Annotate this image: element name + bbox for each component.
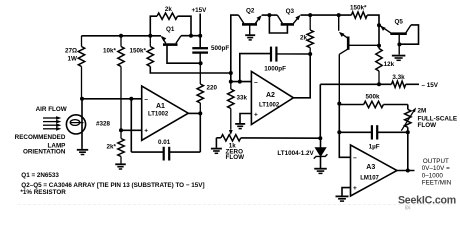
resistor 500k bbox=[339, 104, 363, 106]
air flow arrows bbox=[43, 117, 58, 119]
node A3 output bbox=[406, 169, 410, 173]
ground LT1004 bbox=[314, 168, 327, 170]
svg-text:SeekIC.com: SeekIC.com bbox=[398, 194, 456, 206]
wire Q3 base loop bbox=[269, 15, 287, 33]
faint scan line bbox=[18, 204, 452, 206]
wire lamp node to A1 minus bbox=[82, 98, 142, 100]
svg-text:3.3k: 3.3k bbox=[392, 74, 405, 81]
wire A2 minus input bbox=[231, 81, 252, 83]
ground 1k pot bbox=[211, 148, 222, 150]
ground A2 plus bbox=[235, 123, 245, 125]
node A1 minus / 0.01 feedback bbox=[129, 97, 133, 101]
node 150k left / Q4 emitter bbox=[337, 13, 341, 17]
svg-text:2k: 2k bbox=[165, 6, 173, 13]
transistor Q3 (diode connected) bbox=[281, 23, 294, 26]
svg-text:LT1004-1.2V: LT1004-1.2V bbox=[277, 150, 314, 157]
node 10k / 2k* / A1 plus bbox=[119, 128, 123, 132]
node 1uF right / 2M bottom bbox=[406, 130, 410, 134]
svg-text:−: − bbox=[353, 155, 357, 162]
wire +15V down bbox=[199, 14, 201, 48]
resistor 220 bbox=[199, 63, 201, 84]
svg-text:AIR FLOW: AIR FLOW bbox=[36, 106, 67, 113]
ground A3 plus bbox=[336, 195, 349, 197]
node 2k bottom / 1000pF / A2 out bbox=[308, 52, 312, 56]
wire Q5 collector loop bbox=[400, 25, 419, 44]
node A3 summing / 500k left bbox=[337, 102, 341, 106]
node 1000pF left bbox=[238, 80, 242, 84]
pot 1k ZERO FLOW bbox=[221, 135, 241, 141]
svg-text:33k: 33k bbox=[237, 95, 248, 102]
node Q3 base tie bbox=[267, 13, 271, 17]
svg-text:10k*: 10k* bbox=[103, 48, 117, 55]
svg-text:+: + bbox=[144, 127, 148, 134]
svg-text:A1: A1 bbox=[156, 103, 165, 110]
resistor 27 ohm 1W bbox=[81, 36, 83, 47]
svg-text:0V–10V =: 0V–10V = bbox=[422, 165, 450, 172]
node 12k / 3.3k bbox=[377, 82, 381, 86]
resistor 2k* bbox=[120, 130, 122, 138]
ground Q2 base bbox=[245, 34, 255, 36]
svg-text:2M: 2M bbox=[418, 108, 427, 115]
svg-text:500pF: 500pF bbox=[211, 45, 229, 52]
wire Q1 collector to +15V node bbox=[181, 35, 200, 37]
svg-text:27Ω: 27Ω bbox=[65, 48, 77, 55]
pot wiper arrow bbox=[229, 130, 233, 135]
svg-text:FEET/MIN: FEET/MIN bbox=[422, 180, 452, 187]
svg-text:+: + bbox=[254, 111, 258, 118]
svg-text:A3: A3 bbox=[366, 164, 375, 171]
wire A3 output bbox=[397, 170, 415, 172]
svg-text:12k: 12k bbox=[384, 61, 395, 68]
transistor Q2 bbox=[242, 23, 257, 26]
svg-text:0.01: 0.01 bbox=[158, 139, 171, 146]
wire A2 plus to ground bbox=[240, 114, 251, 124]
capacitor 1uF bbox=[339, 131, 372, 133]
svg-text:#328: #328 bbox=[96, 121, 111, 128]
Q5 emitter arrow bbox=[380, 26, 386, 31]
node Q1 base / 500pF / 220 bbox=[199, 61, 203, 65]
node Q4 base / 12k top bbox=[377, 44, 381, 48]
svg-text:+: + bbox=[353, 185, 357, 192]
Q1 emitter arrow bbox=[161, 36, 166, 41]
node 1uF left / A3 minus column bbox=[337, 130, 341, 134]
svg-text:1000pF: 1000pF bbox=[264, 66, 286, 73]
svg-text:2k*: 2k* bbox=[107, 144, 117, 151]
Q3 emitter arrow bbox=[295, 15, 300, 20]
svg-text:0–1000: 0–1000 bbox=[422, 172, 444, 179]
wire A1 output bbox=[188, 112, 200, 114]
ground Q5 bbox=[392, 55, 406, 57]
wire -15V divider column bbox=[319, 84, 321, 138]
wire Q2 emitter to Q3 collector bbox=[262, 14, 278, 16]
svg-text:OUTPUT: OUTPUT bbox=[423, 158, 449, 165]
svg-text:ORIENTATION: ORIENTATION bbox=[23, 149, 66, 156]
svg-text:1µF: 1µF bbox=[369, 143, 380, 150]
wire 150k bottom to A2 minus column bbox=[150, 67, 231, 74]
node lamp top bbox=[80, 97, 84, 101]
ground 2k* bbox=[115, 163, 126, 165]
wire Q3 emitter to 150k bbox=[301, 14, 352, 16]
svg-text:Q2–Q5 = CA3046 ARRAY [TIE PIN: Q2–Q5 = CA3046 ARRAY [TIE PIN 13 (SUBSTR… bbox=[21, 182, 204, 189]
svg-text:LM107: LM107 bbox=[360, 175, 379, 181]
lamp #328 bbox=[81, 99, 83, 149]
transistor Q5 bbox=[390, 32, 407, 35]
resistor 12k bbox=[376, 49, 382, 72]
node bridge bus / 150k top / 2k left bbox=[148, 34, 152, 38]
svg-text:Q3: Q3 bbox=[286, 8, 295, 15]
svg-text:FLOW: FLOW bbox=[226, 154, 245, 161]
node LT1004 / 1k pot bbox=[318, 136, 322, 140]
svg-text:1W: 1W bbox=[68, 56, 78, 63]
svg-text:220: 220 bbox=[207, 85, 218, 92]
svg-text:RECOMMENDED: RECOMMENDED bbox=[15, 134, 66, 141]
resistor 2k (A2 feedback) bbox=[309, 15, 311, 30]
wire 10k-2k divider to A1 plus bbox=[121, 129, 142, 131]
node bridge bus / 10k top bbox=[119, 34, 123, 38]
Q2 emitter arrow bbox=[257, 15, 262, 20]
svg-text:150k*: 150k* bbox=[350, 5, 367, 12]
node 2k top bbox=[308, 13, 312, 17]
svg-text:−: − bbox=[144, 96, 148, 103]
resistor 2k (Q1 base-emitter) bbox=[150, 16, 157, 36]
wire A3 minus input bbox=[339, 104, 350, 158]
node Q5 base / loop bbox=[397, 42, 401, 46]
wire A2 output feedback bbox=[293, 54, 310, 98]
resistor 10k* bbox=[120, 36, 122, 47]
ground lamp bbox=[77, 149, 88, 151]
capacitor 0.01 (A1 feedback) bbox=[130, 99, 132, 152]
node 150k / Q2 collector column bbox=[229, 71, 233, 75]
capacitor 500pF bbox=[192, 47, 208, 49]
svg-text:LT1002: LT1002 bbox=[259, 103, 280, 109]
Q4 emitter arrow bbox=[339, 32, 345, 37]
zener bar LT1004 bbox=[314, 154, 328, 158]
op-amp A2 LT1002 bbox=[251, 71, 293, 124]
node 2k right / collector rail bbox=[189, 34, 193, 38]
svg-text:2k: 2k bbox=[300, 35, 308, 42]
wire bridge top bus bbox=[82, 35, 162, 37]
svg-text:FLOW: FLOW bbox=[418, 122, 437, 129]
svg-text:*1% RESISTOR: *1% RESISTOR bbox=[20, 189, 66, 196]
node +15V / 500pF bbox=[198, 34, 202, 38]
node Q5 emitter bbox=[377, 23, 381, 27]
wire top rail to Q2 bbox=[231, 15, 239, 82]
resistor 150k* (bridge) bbox=[149, 36, 151, 47]
svg-text:Q2: Q2 bbox=[246, 8, 255, 15]
resistor 3.3k bbox=[320, 83, 391, 85]
wire Q1 base down-right bbox=[167, 46, 201, 64]
resistor 33k bbox=[230, 82, 232, 89]
svg-text:+15V: +15V bbox=[192, 7, 208, 14]
2M wiper arrow bbox=[412, 108, 416, 113]
wire A3 plus to ground bbox=[342, 188, 351, 196]
node A2 minus / 33k bbox=[229, 80, 233, 84]
diode LT1004-1.2V bbox=[320, 138, 322, 147]
svg-text:– 15V: – 15V bbox=[422, 82, 439, 89]
transistor Q1 2N6533 bbox=[163, 43, 178, 46]
svg-text:Q1 = 2N6533: Q1 = 2N6533 bbox=[21, 172, 59, 179]
node A1 output bbox=[198, 111, 202, 115]
svg-text:150k*: 150k* bbox=[130, 48, 147, 55]
svg-text:A2: A2 bbox=[266, 92, 275, 99]
pot 2M FULL-SCALE FLOW bbox=[407, 105, 409, 110]
svg-text:LT1002: LT1002 bbox=[148, 112, 169, 118]
capacitor 1000pF bbox=[240, 54, 271, 82]
svg-text:Q5: Q5 bbox=[395, 18, 404, 25]
svg-text:500k: 500k bbox=[366, 94, 381, 101]
op-amp A1 LT1002 bbox=[142, 86, 189, 140]
svg-text:Đị: Đị bbox=[405, 206, 411, 211]
resistor 150k* (top right) bbox=[351, 12, 367, 18]
svg-text:Q1: Q1 bbox=[166, 26, 175, 33]
transistor Q4 bbox=[338, 15, 340, 31]
svg-text:−: − bbox=[254, 79, 258, 86]
